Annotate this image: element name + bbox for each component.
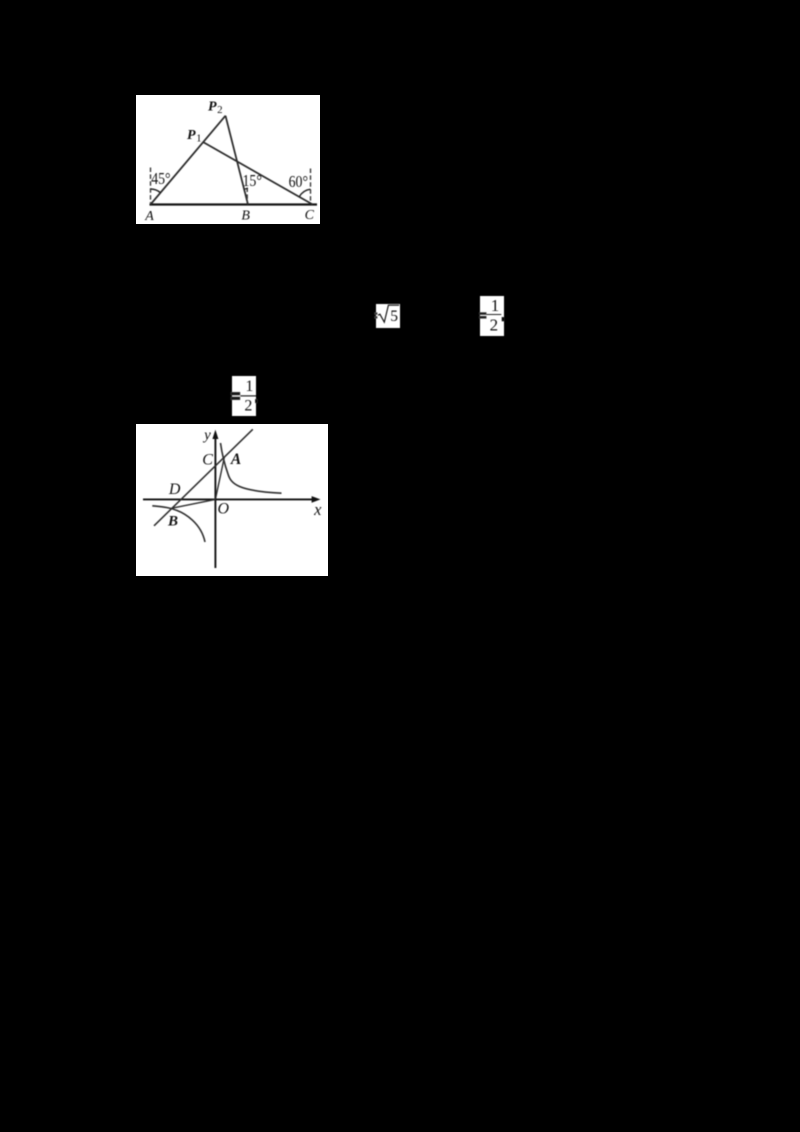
svg-text:y: y (202, 428, 211, 444)
svg-text:1: 1 (491, 296, 500, 315)
svg-text:2: 2 (490, 316, 499, 335)
svg-text:60°: 60° (289, 172, 308, 191)
svg-text:D: D (168, 481, 181, 498)
svg-text:P2: P2 (208, 100, 223, 117)
svg-text:2: 2 (244, 398, 252, 415)
svg-text:x: x (313, 500, 322, 519)
svg-text:C: C (202, 452, 213, 469)
svg-text:B: B (241, 209, 250, 224)
svg-text:45°: 45° (151, 169, 170, 188)
svg-text:5: 5 (390, 308, 398, 325)
svg-text:15°: 15° (243, 171, 262, 190)
svg-text:P1: P1 (187, 128, 202, 145)
svg-text:A: A (230, 451, 241, 468)
svg-text:O: O (218, 500, 230, 517)
svg-text:B: B (167, 514, 178, 530)
svg-text:C: C (305, 208, 315, 223)
svg-text:A: A (144, 209, 154, 224)
svg-text:1: 1 (245, 378, 253, 395)
